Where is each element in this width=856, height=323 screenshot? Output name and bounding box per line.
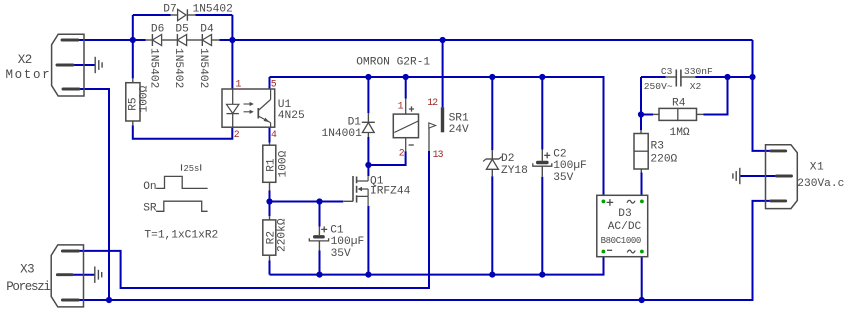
D3 pin dot - xyxy=(602,250,606,254)
diode D7 xyxy=(171,9,196,20)
value R4 1Mohm xyxy=(670,127,690,139)
svg-text:1N5402: 1N5402 xyxy=(147,48,159,88)
label D5 xyxy=(175,24,188,36)
D3 pin dot + xyxy=(602,200,606,204)
svg-text:100Ω: 100Ω xyxy=(278,150,290,177)
ground at X3 xyxy=(95,267,102,283)
svg-text:On: On xyxy=(143,181,156,193)
svg-text:220kΩ: 220kΩ xyxy=(277,218,289,252)
wire C3 rail xyxy=(641,76,753,78)
svg-text:250V~: 250V~ xyxy=(644,81,673,92)
svg-text:1MΩ: 1MΩ xyxy=(670,127,690,139)
wire R2 top xyxy=(269,202,271,217)
pin number SR1-12 xyxy=(427,97,438,108)
svg-text:1N4001: 1N4001 xyxy=(322,128,363,140)
plus sign coil xyxy=(409,106,414,111)
pin number U1-4 xyxy=(271,129,277,140)
wire R1 bottom xyxy=(269,191,271,202)
svg-text:D5: D5 xyxy=(175,24,188,36)
diode D4 value 1N5402 xyxy=(197,48,209,88)
svg-text:100µF: 100µF xyxy=(331,236,365,248)
svg-text:C3: C3 xyxy=(661,66,673,77)
label R4 xyxy=(672,98,686,110)
value C2 35V xyxy=(553,172,573,184)
connector X3 pin 2 xyxy=(57,273,72,276)
svg-text:R3: R3 xyxy=(651,141,664,153)
svg-text:220Ω: 220Ω xyxy=(650,154,677,166)
wire D7 branch right vertical to U1 pin 1 xyxy=(231,15,233,89)
svg-text:OMRON G2R-1: OMRON G2R-1 xyxy=(356,57,430,69)
label X2 xyxy=(18,53,32,67)
svg-text:B80C1000: B80C1000 xyxy=(601,236,641,246)
svg-text:24V: 24V xyxy=(449,124,469,136)
capacitor C2 xyxy=(533,150,552,177)
pin number coil 1 xyxy=(398,101,404,112)
connector X1 pin 3 xyxy=(771,199,786,202)
svg-text:2: 2 xyxy=(399,148,405,159)
wire D3 ~ bottom to rail xyxy=(641,252,643,301)
resistor R2 leads xyxy=(269,216,271,261)
diode D4 leads xyxy=(212,39,220,41)
junction dot C2/ground rail xyxy=(539,272,545,278)
pin number U1-2 xyxy=(234,129,240,140)
diode D2 zener xyxy=(483,150,502,176)
resistor R5 leads xyxy=(132,78,134,125)
resistor R4 xyxy=(659,108,697,120)
wire C1 top xyxy=(319,202,321,227)
svg-text:ZY18: ZY18 xyxy=(501,165,528,177)
resistor R1 xyxy=(263,145,276,182)
label R1 xyxy=(265,158,277,172)
wire R4 left lead xyxy=(641,114,653,116)
resistor R5 xyxy=(126,83,140,121)
relay contact SR1 xyxy=(429,107,444,151)
diode D6 leads xyxy=(146,39,178,41)
label X1 xyxy=(810,162,825,174)
value D2 ZY18 xyxy=(501,165,528,177)
svg-text:IRFZ44: IRFZ44 xyxy=(370,185,411,197)
formula T=1,1xC1xR2 xyxy=(144,230,218,242)
connector X1 pin 2 xyxy=(776,175,791,178)
pin number coil 2 xyxy=(399,148,405,159)
value D1 1N4001 xyxy=(322,128,363,140)
wire SR1 pin 12 xyxy=(442,40,444,107)
svg-text:R1: R1 xyxy=(265,158,277,172)
junction dot R4/C3 rail xyxy=(724,74,730,80)
D3 plus mark xyxy=(607,199,614,206)
svg-text:X1: X1 xyxy=(810,162,825,174)
relay coil SR1 xyxy=(393,99,418,152)
svg-text:X3: X3 xyxy=(20,262,34,276)
label OMRON G2R-1 xyxy=(356,57,430,69)
wire X2 middle pin to ground xyxy=(72,64,95,66)
value D3 B80C1000 xyxy=(601,236,641,246)
time marker 25s xyxy=(182,164,201,174)
svg-text:2: 2 xyxy=(234,129,240,140)
svg-text:D3: D3 xyxy=(618,208,631,220)
connector X3 pin 3 xyxy=(62,299,78,302)
junction dot C1/ground rail xyxy=(316,272,322,278)
D3 pin dot ~ top xyxy=(640,200,644,204)
svg-text:R4: R4 xyxy=(672,98,686,110)
junction dot C2 top xyxy=(539,74,545,80)
label On xyxy=(143,181,156,193)
ground at X1 xyxy=(733,168,740,184)
label D7 value 1N5402 xyxy=(193,3,233,15)
wire D7 branch left vertical xyxy=(132,15,134,78)
value C2 100uF xyxy=(553,160,587,172)
value SR1 24V xyxy=(449,124,469,136)
label R2 xyxy=(265,231,277,244)
wire C2 vertical xyxy=(541,77,543,275)
label C1 xyxy=(330,224,344,236)
svg-text:100Ω: 100Ω xyxy=(139,85,151,112)
diode D1 xyxy=(362,113,375,137)
svg-text:X2: X2 xyxy=(690,81,702,92)
wire D1 vertical xyxy=(367,77,369,165)
svg-text:1: 1 xyxy=(398,101,404,112)
svg-text:T=1,1xC1xR2: T=1,1xC1xR2 xyxy=(144,230,218,242)
junction dot D3~/bottom rail xyxy=(639,297,645,303)
value R2 220kohm xyxy=(277,218,289,252)
wire X2 bottom pin down xyxy=(79,89,109,300)
value D3 AC/DC xyxy=(608,221,642,233)
label R3 xyxy=(651,141,664,153)
wire SR1 pin 13 to X3 top pin xyxy=(79,151,430,288)
diode D6 xyxy=(152,34,161,46)
label D4 xyxy=(200,24,214,36)
svg-text:1: 1 xyxy=(236,79,242,90)
minus sign coil xyxy=(409,144,414,146)
svg-text:U1: U1 xyxy=(278,99,292,111)
waveform SR xyxy=(156,201,208,211)
wire X3 middle pin to ground xyxy=(72,274,95,276)
label D6 xyxy=(151,24,164,36)
wire R2 bottom xyxy=(269,261,271,275)
label 230Va.c xyxy=(797,178,844,190)
label C2 xyxy=(553,148,566,160)
label D1 xyxy=(348,117,362,129)
label C3 xyxy=(661,66,673,77)
diode D5 xyxy=(177,34,186,46)
label X3 xyxy=(20,262,34,276)
junction dot D1/coil-/Q1 drain xyxy=(365,162,371,168)
label D3 xyxy=(618,208,631,220)
junction dot C3 rail/X1 branch xyxy=(749,74,755,80)
svg-text:D1: D1 xyxy=(348,117,362,129)
svg-text:1N5402: 1N5402 xyxy=(197,48,209,88)
wire ground rail to D3 minus xyxy=(270,252,604,275)
value C1 35V xyxy=(331,248,351,260)
connector X2 pin 1 xyxy=(62,39,78,42)
wire X1 middle pin to ground xyxy=(740,175,777,177)
connector X2 pin 3 xyxy=(63,88,79,91)
wire R3 bottom to D3 xyxy=(641,173,643,202)
capacitor C3 xyxy=(666,70,696,87)
value U1 4N25 xyxy=(278,110,305,122)
D3 minus mark xyxy=(607,249,612,251)
junction dot R1/R2/gate xyxy=(266,198,272,204)
svg-text:35V: 35V xyxy=(553,172,573,184)
plus sign C1 xyxy=(321,226,327,232)
wire top rail to X1 top pin xyxy=(753,40,771,151)
junction dot D1 top xyxy=(365,74,371,80)
resistor R3 leads xyxy=(640,130,642,173)
svg-text:D2: D2 xyxy=(501,153,514,165)
svg-text:R2: R2 xyxy=(265,231,277,244)
pin number U1-1 xyxy=(236,79,242,90)
wire C3 left corner down to R4/R3 xyxy=(640,77,642,130)
svg-text:4N25: 4N25 xyxy=(278,110,305,122)
U1 LED xyxy=(227,89,239,127)
plus sign C2 xyxy=(544,152,550,158)
value C3 330nF xyxy=(684,66,713,77)
junction dot rail/SR1 pin12 xyxy=(440,37,446,43)
resistor R3 xyxy=(634,134,648,170)
pin number SR1-13 xyxy=(433,149,444,160)
junction dot D2 top xyxy=(489,74,495,80)
svg-text:X2: X2 xyxy=(18,53,32,67)
transistor Q1 IRFZ44 xyxy=(343,176,368,206)
resistor R4 leads xyxy=(653,113,704,115)
junction dot D2/ground rail xyxy=(489,272,495,278)
svg-text:AC/DC: AC/DC xyxy=(608,221,642,233)
label Poreszi xyxy=(6,280,50,294)
label SR1 xyxy=(449,113,469,125)
connector X2 pin 2 xyxy=(57,64,73,67)
wire C1 bottom xyxy=(319,251,321,275)
value C3 X2 xyxy=(690,81,702,92)
wire D1/relay pin2 to Q1 drain xyxy=(367,165,369,176)
label D7 xyxy=(163,3,176,15)
wire Q1 source down xyxy=(367,206,369,275)
svg-text:Motor: Motor xyxy=(6,68,52,82)
svg-text:D4: D4 xyxy=(200,24,214,36)
wire relay pin 1 xyxy=(405,77,407,99)
junction dot relay coil pin 1 xyxy=(403,74,409,80)
connector X3 pin 1 xyxy=(62,250,78,253)
diode D5 value 1N5402 xyxy=(172,48,184,88)
resistor R2 xyxy=(263,220,276,255)
wire U1 pin 5 up and 24V rail xyxy=(270,77,604,201)
wire D7 branch top xyxy=(133,14,233,16)
D3 tilde bottom xyxy=(627,250,635,253)
wire U1 pin 4 to R1 xyxy=(269,127,271,142)
label U1 xyxy=(278,99,292,111)
svg-text:100µF: 100µF xyxy=(553,160,587,172)
U1 phototransistor xyxy=(258,89,270,127)
D3 tilde top xyxy=(627,200,635,203)
svg-text:Poreszi: Poreszi xyxy=(6,280,50,294)
svg-text:SR1: SR1 xyxy=(449,113,469,125)
svg-text:13: 13 xyxy=(433,149,444,160)
junction dot C1 top xyxy=(316,198,322,204)
diode D4 xyxy=(202,34,211,46)
junction dot X2-branch/bottom rail xyxy=(106,297,112,303)
capacitor C1 xyxy=(309,227,328,251)
label R5 xyxy=(128,97,140,110)
junction dot Q1 source/ground rail xyxy=(365,272,371,278)
D3 pin dot ~ bottom xyxy=(640,250,644,254)
svg-text:35V: 35V xyxy=(331,248,351,260)
label SR xyxy=(143,203,157,215)
svg-text:4: 4 xyxy=(271,129,277,140)
svg-text:1N5402: 1N5402 xyxy=(193,3,233,15)
svg-text:12: 12 xyxy=(427,97,438,108)
diode D6 value 1N5402 xyxy=(147,48,159,88)
svg-text:25s: 25s xyxy=(184,164,200,174)
value R1 100ohm xyxy=(278,150,290,177)
wire relay pin 2 route xyxy=(368,151,405,165)
label D2 xyxy=(501,153,514,165)
resistor R1 leads xyxy=(269,143,271,191)
label Motor xyxy=(6,68,52,82)
wire R4 right to C3 rail xyxy=(704,77,728,115)
value C1 100uF xyxy=(331,236,365,248)
value R5 100ohm xyxy=(139,85,151,112)
wire bottom rail X3 to X1 xyxy=(79,201,771,300)
waveform On xyxy=(156,176,208,188)
connector X2 outline xyxy=(52,34,84,96)
connector X1 pin 1 xyxy=(771,149,786,152)
wire D2 vertical xyxy=(491,77,493,275)
wire net MOTOR top rail xyxy=(79,39,753,41)
svg-text:SR: SR xyxy=(143,203,157,215)
junction dot rail/D7/R5 xyxy=(130,37,136,43)
value Q1 IRFZ44 xyxy=(370,185,411,197)
value R3 220ohm xyxy=(650,154,677,166)
svg-text:C2: C2 xyxy=(553,148,566,160)
diode D5 leads xyxy=(187,39,202,41)
junction dot rail/U1 pin1 xyxy=(229,37,235,43)
connector X1 outline xyxy=(766,145,798,209)
pin number U1-5 xyxy=(271,79,277,90)
svg-text:1N5402: 1N5402 xyxy=(172,48,184,88)
svg-text:5: 5 xyxy=(271,79,277,90)
wire R5 bottom to U1 pin 2 xyxy=(133,126,233,139)
svg-text:330nF: 330nF xyxy=(684,66,713,77)
connector X3 outline xyxy=(51,245,83,307)
label Q1 xyxy=(370,176,384,188)
svg-text:230Va.c: 230Va.c xyxy=(797,178,844,190)
bridge rectifier D3 box xyxy=(597,195,648,256)
junction dot R3/R4 node xyxy=(638,111,644,117)
U1 light arrows xyxy=(244,102,254,114)
op-amp U1 box xyxy=(222,89,275,127)
ground at X2 xyxy=(95,57,102,73)
value C3 250V~ xyxy=(644,81,673,92)
svg-text:D7: D7 xyxy=(163,3,176,15)
svg-text:C1: C1 xyxy=(330,224,344,236)
svg-text:D6: D6 xyxy=(151,24,164,36)
wire gate rail xyxy=(270,201,344,203)
